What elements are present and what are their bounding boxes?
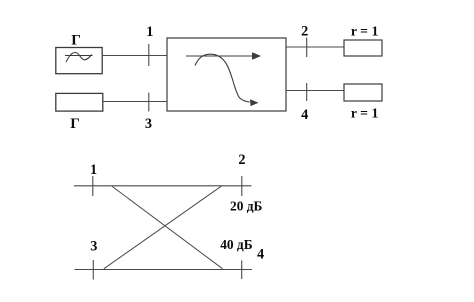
diagonal 1-4 — [112, 186, 223, 269]
wire port2 — [286, 46, 344, 48]
svg-text:40 дБ: 40 дБ — [220, 237, 253, 252]
port 2 tick — [306, 38, 308, 58]
svg-text:3: 3 — [145, 116, 152, 132]
node 1 tick — [92, 176, 94, 196]
svg-text:Г: Г — [70, 116, 80, 132]
load box port2 — [344, 40, 382, 56]
flow graph top line 1-2 — [74, 185, 252, 187]
svg-text:Г: Г — [71, 33, 81, 49]
node 4 tick — [241, 261, 243, 280]
load box port4 — [344, 84, 382, 101]
wire port3 — [103, 101, 167, 103]
svg-text:2: 2 — [301, 23, 308, 39]
port 1 tick — [148, 44, 150, 66]
port 4 tick — [306, 83, 308, 101]
node 3 tick — [92, 260, 94, 280]
svg-text:2: 2 — [238, 152, 245, 168]
generator G1 sine symbol — [65, 53, 93, 63]
through-path arrow — [186, 52, 261, 60]
svg-text:3: 3 — [90, 238, 97, 254]
wire port1 — [102, 55, 167, 57]
node 2 tick — [241, 176, 243, 196]
svg-text:r = 1: r = 1 — [351, 23, 379, 38]
diagonal 3-2 — [104, 186, 222, 269]
svg-text:1: 1 — [90, 162, 97, 178]
svg-text:4: 4 — [257, 246, 264, 262]
svg-text:1: 1 — [146, 24, 153, 40]
port 3 tick — [148, 93, 150, 112]
network U1 box — [167, 38, 286, 111]
generator G1 box — [56, 48, 102, 74]
svg-text:20 дБ: 20 дБ — [230, 198, 263, 213]
generator G2 box — [56, 93, 103, 111]
svg-text:4: 4 — [301, 107, 308, 123]
svg-text:r = 1: r = 1 — [351, 105, 379, 120]
coupled-path S-curve arrow — [195, 54, 259, 106]
wire port4 — [286, 90, 344, 92]
flow graph bottom line 3-4 — [75, 269, 253, 271]
